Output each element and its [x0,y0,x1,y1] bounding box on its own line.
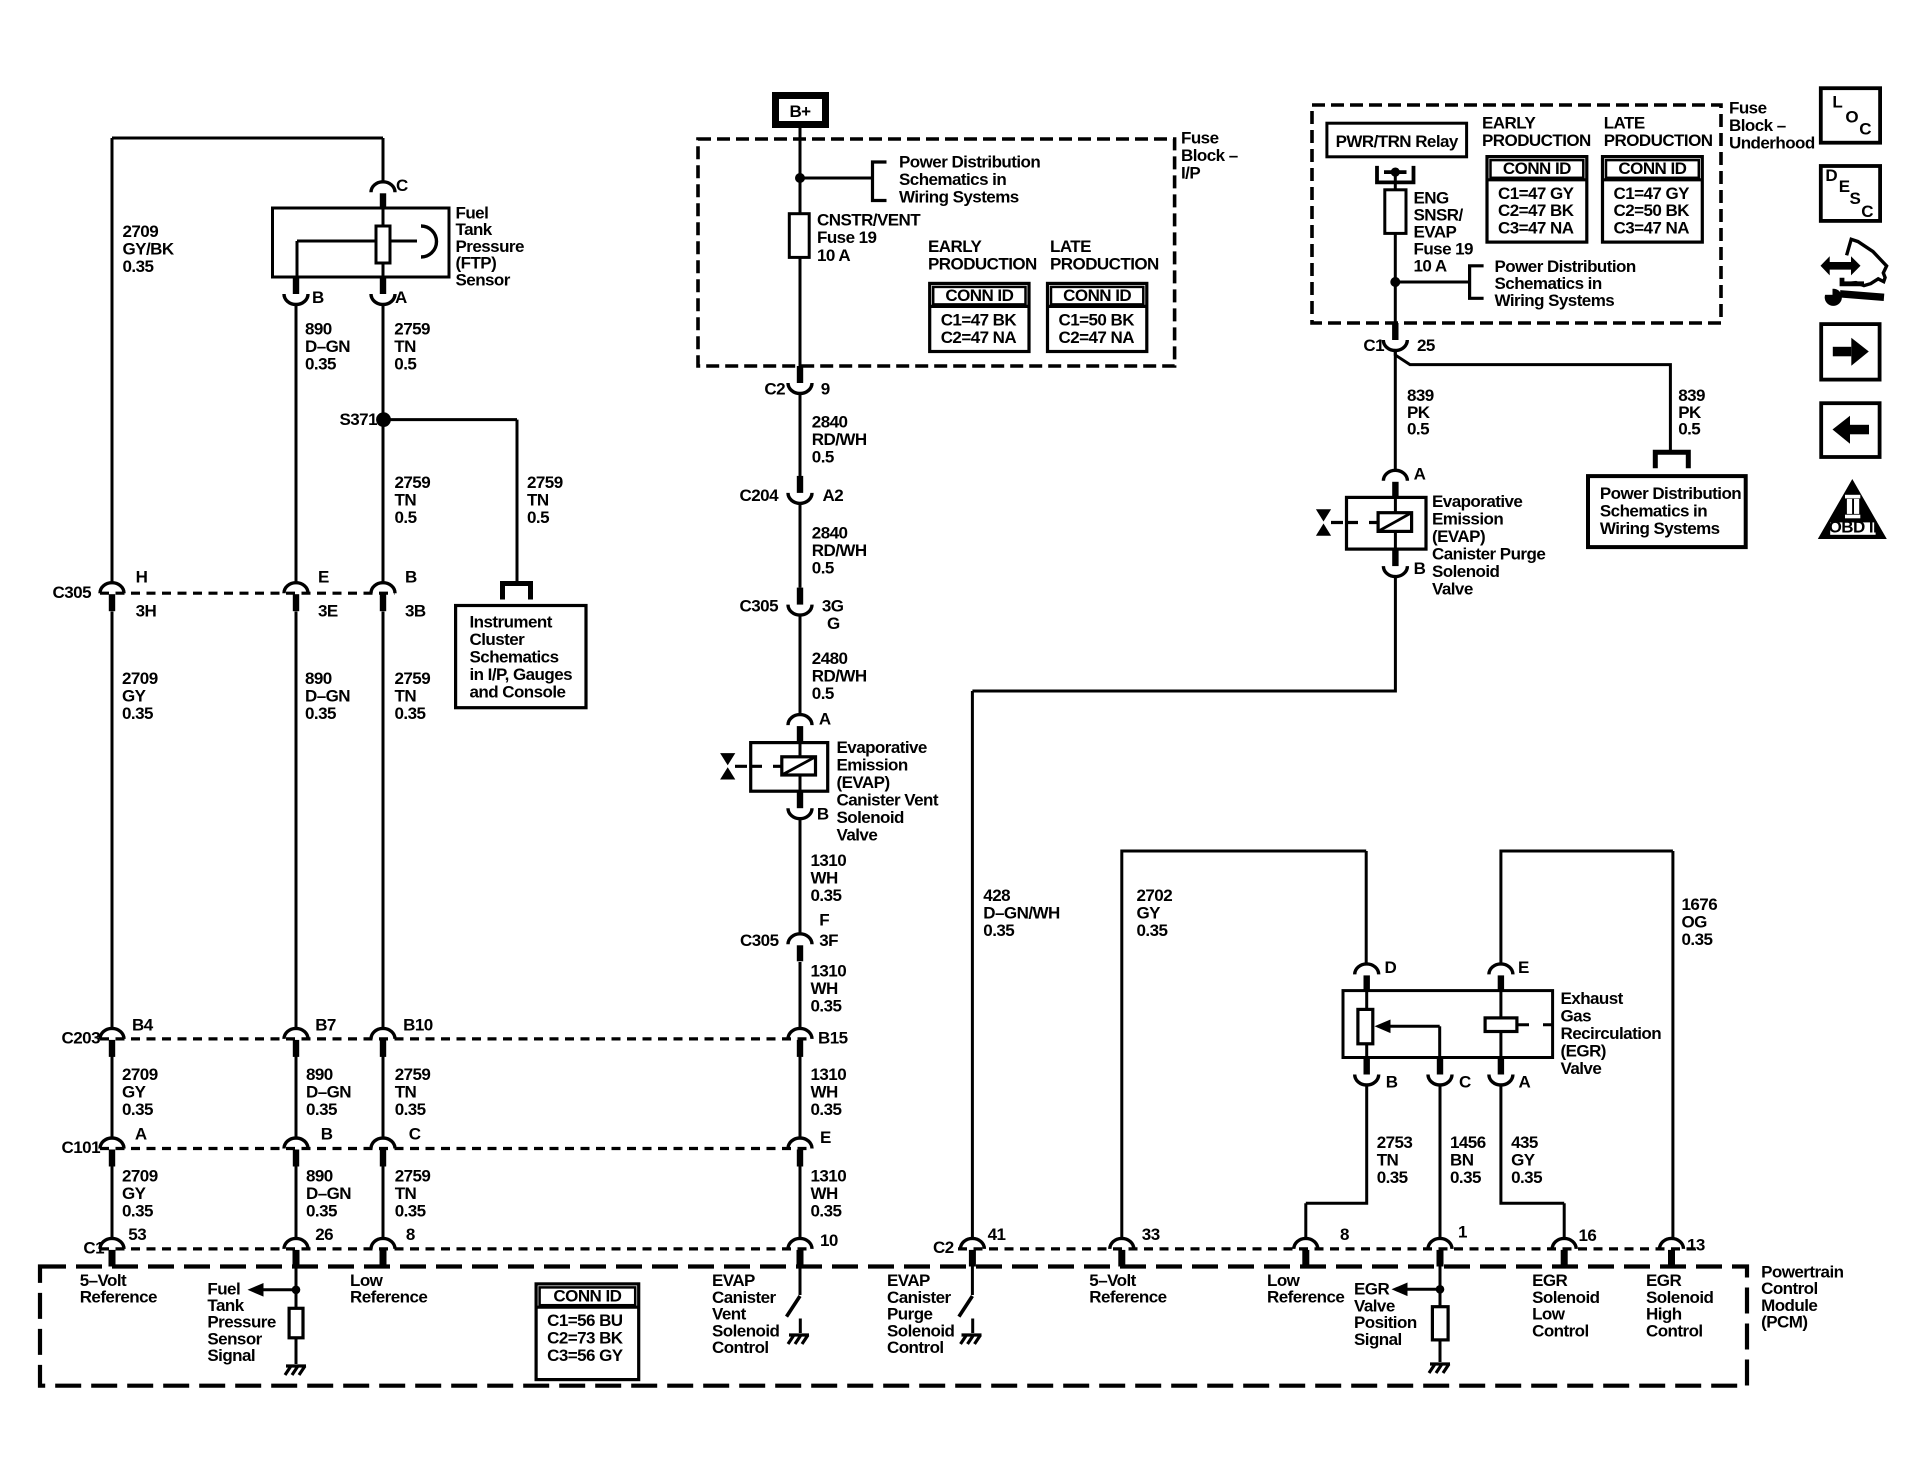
svg-text:1310: 1310 [811,961,847,980]
svg-text:CONN ID: CONN ID [1063,286,1131,305]
wire 2480 RD/WH [799,615,802,715]
conn id table early production I/P [930,283,1029,351]
label EVAP Canister Purge Solenoid Control [887,1271,955,1357]
connector C305 pin H [100,567,157,620]
svg-text:I/P: I/P [1181,163,1200,182]
svg-text:B: B [1414,559,1426,578]
wire 1310 WH (E to PCM pin 10) [799,1166,802,1239]
label Power Distribution Schematics underhood [1495,257,1636,310]
connector C2 dashed line [958,1247,1700,1250]
connector pin A of purge valve [1383,465,1425,498]
wire 2840 RD/WH (C2 to C204) [799,393,802,476]
svg-text:PWR/TRN Relay: PWR/TRN Relay [1336,132,1459,151]
svg-text:Control: Control [887,1338,944,1357]
svg-text:Fuse 19: Fuse 19 [817,228,877,247]
svg-text:RD/WH: RD/WH [812,541,867,560]
svg-text:RD/WH: RD/WH [812,667,867,686]
label Fuel Tank Pressure (FTP) Sensor [456,204,524,290]
conn id table late production I/P [1048,283,1147,351]
label C305 [53,583,92,602]
svg-text:C2=47 NA: C2=47 NA [941,328,1017,347]
svg-text:0.35: 0.35 [1682,930,1713,949]
svg-text:CONN ID: CONN ID [945,286,1013,305]
svg-text:EARLY: EARLY [928,237,983,256]
svg-text:890: 890 [305,669,332,688]
FTP sensor signal arrow and resistor [248,1267,304,1365]
svg-text:2840: 2840 [812,523,848,542]
connector C204 pin A2 [740,476,844,505]
EVAP canister purge solenoid valve box [1347,497,1427,549]
connector C101 pin C [371,1125,421,1167]
svg-text:Reference: Reference [1089,1288,1166,1307]
svg-text:Valve: Valve [837,825,878,844]
svg-text:2702: 2702 [1137,886,1173,905]
svg-text:GY: GY [1511,1151,1536,1170]
svg-text:2709: 2709 [123,222,159,241]
svg-text:16: 16 [1579,1226,1597,1245]
label EGR Valve Position Signal [1354,1280,1417,1349]
EGR position signal arrow and resistor [1392,1267,1449,1363]
svg-text:33: 33 [1142,1225,1160,1244]
wire 2753 TN (EGR B to PCM 8) [1306,1085,1367,1239]
svg-text:Control: Control [1646,1321,1703,1340]
svg-text:1676: 1676 [1682,895,1718,914]
wire junction to bracket underhood [1395,281,1469,284]
svg-text:428: 428 [983,886,1010,905]
connector C305 pin 3F [740,911,838,962]
fuse block I/P dashed box [698,139,1175,366]
svg-text:PRODUCTION: PRODUCTION [1482,131,1591,150]
svg-text:Cluster: Cluster [470,630,526,649]
svg-text:OG: OG [1682,913,1708,932]
svg-text:A: A [1414,465,1426,484]
ground EVAP vent driver [788,1335,809,1344]
svg-text:C1=47 GY: C1=47 GY [1498,184,1575,203]
svg-text:B: B [321,1125,333,1144]
svg-text:C: C [409,1125,421,1144]
svg-text:Schematics in: Schematics in [1600,502,1707,521]
EVAP vent control driver switch [787,1267,801,1334]
svg-text:Recirculation: Recirculation [1561,1024,1662,1043]
label Power Distribution Schematics in Wiring Systems box [1600,484,1741,538]
label 2759 TN 0.35 (lower) [395,1065,431,1119]
svg-text:D–GN: D–GN [305,686,350,705]
label 2702 GY 0.35 [1137,886,1173,940]
EGR position sensor potentiometer [1358,991,1373,1058]
svg-text:B: B [312,288,324,307]
label Fuel Tank Pressure Sensor Signal [207,1279,275,1365]
svg-text:Power Distribution: Power Distribution [1600,484,1741,503]
svg-text:2840: 2840 [812,413,848,432]
svg-text:2759: 2759 [394,320,430,339]
vent valve coil [782,743,816,792]
label EGR Solenoid High Control [1646,1271,1714,1340]
svg-text:9: 9 [821,380,830,399]
svg-text:Emission: Emission [837,755,908,774]
svg-text:LATE: LATE [1050,237,1091,256]
icon DESC box [1821,166,1880,221]
svg-text:C1=47 BK: C1=47 BK [941,310,1018,329]
svg-text:B+: B+ [789,102,811,121]
svg-text:Power Distribution: Power Distribution [899,152,1040,171]
svg-text:E: E [1518,958,1529,977]
label Power Distribution Schematics I/P [899,152,1040,206]
label 2759 TN 0.5 (left of A wire) [395,473,431,527]
svg-text:A: A [819,709,831,728]
wire 2759 TN (C203 to C101) [382,1057,385,1139]
connector C305 pin 3G [740,588,844,633]
svg-text:1: 1 [1458,1223,1467,1242]
junction dot underhood [1390,277,1400,287]
svg-text:0.35: 0.35 [1137,921,1168,940]
svg-text:2709: 2709 [122,1065,158,1084]
svg-text:3B: 3B [405,601,426,620]
wire 890 D-GN (C101 to C1) [295,1166,298,1239]
svg-text:0.5: 0.5 [1678,420,1700,439]
label ENG SNSR/EVAP Fuse 19 10 A [1414,189,1474,276]
label C2 [933,1238,954,1257]
svg-text:(EGR): (EGR) [1561,1042,1606,1061]
svg-text:B7: B7 [315,1015,336,1034]
svg-text:Emission: Emission [1432,509,1503,528]
splice S371 [339,410,390,429]
svg-text:B10: B10 [403,1015,433,1034]
svg-text:O: O [1845,108,1858,127]
svg-text:3F: 3F [819,931,838,950]
wire 2759 TN (C305 to C203) [382,612,385,1029]
ground FTP signal divider [285,1366,306,1375]
svg-text:0.35: 0.35 [811,996,842,1015]
label C203 [62,1029,101,1048]
wire fuse 19 to C2 [799,257,802,366]
svg-text:Underhood: Underhood [1729,134,1815,153]
label 1456 BN 0.35 [1450,1133,1486,1187]
label EGR Solenoid Low Control [1532,1271,1600,1340]
label Evaporative Emission EVAP Canister Purge Solenoid Valve [1432,492,1545,599]
svg-text:GY: GY [122,1184,147,1203]
svg-text:Schematics: Schematics [470,648,559,667]
EVAP purge control driver switch [959,1267,973,1334]
connector C2 pin 1 [1428,1223,1467,1267]
svg-text:2759: 2759 [395,473,431,492]
fuse block underhood dashed box [1312,105,1721,323]
label 2759 TN 0.5 (upper) [394,320,430,374]
wire 2709 GY (C305 to C203) [111,612,114,1029]
svg-text:0.35: 0.35 [395,1100,426,1119]
svg-text:2759: 2759 [395,1167,431,1186]
connector pin B of FTP sensor [284,277,324,307]
wire 1310 WH (B to C305-3F) [799,818,802,934]
svg-text:GY: GY [1137,904,1162,923]
svg-text:0.35: 0.35 [1377,1168,1408,1187]
svg-text:EARLY: EARLY [1482,114,1537,133]
label 2840 RD/WH 0.5 (upper) [812,413,867,467]
svg-text:0.5: 0.5 [527,508,549,527]
connector C305 pin E [284,567,338,620]
svg-text:TN: TN [395,686,417,705]
svg-text:0.5: 0.5 [1407,420,1429,439]
svg-text:(EVAP): (EVAP) [1432,527,1485,546]
label Low Reference (left) [350,1271,427,1307]
svg-text:GY: GY [122,686,147,705]
svg-text:C2=73 BK: C2=73 BK [547,1329,624,1348]
svg-text:0.5: 0.5 [395,508,417,527]
PWR/TRN relay box [1327,123,1467,157]
wire 428 D-GN/WH (purge B to PCM 41) [972,576,1395,1238]
label 890 D-GN 0.35 (bottom) [306,1167,351,1221]
svg-text:10 A: 10 A [1414,257,1447,276]
power distribution schematics box [1588,476,1746,547]
svg-text:CONN ID: CONN ID [1618,159,1686,178]
conn id table PCM [536,1284,639,1380]
label Fuse Block - Underhood [1729,99,1815,153]
label 1676 OG 0.35 [1682,895,1718,949]
svg-text:Canister Vent: Canister Vent [837,790,939,809]
svg-text:10: 10 [820,1231,838,1250]
svg-text:S371: S371 [339,410,377,429]
svg-text:Signal: Signal [207,1346,255,1365]
svg-text:1310: 1310 [811,1065,847,1084]
svg-text:Block –: Block – [1181,146,1238,165]
svg-text:2480: 2480 [812,649,848,668]
svg-text:0.35: 0.35 [305,354,336,373]
connector C305 dashed line [100,592,395,595]
ground EGR position divider [1429,1364,1450,1373]
svg-text:3G: 3G [822,597,844,616]
wire 435 GY (EGR A to PCM 16) [1501,1085,1564,1239]
svg-text:PRODUCTION: PRODUCTION [928,255,1037,274]
icon back arrow box [1821,403,1879,457]
label 2709 GY 0.35 (lower) [122,1065,158,1119]
wire 2759 TN (A to C305-B) [382,304,385,583]
connector pin A of EGR valve [1489,1058,1531,1092]
wire 839 PK branch elbow [1395,350,1670,452]
svg-text:C3=47 NA: C3=47 NA [1498,219,1574,238]
fuel tank pressure sensor FTP box [273,208,450,277]
power distribution bracket underhood [1470,266,1484,299]
B+ battery feed box [776,96,826,125]
label Fuse Block - I/P [1181,129,1238,183]
svg-text:Block –: Block – [1729,116,1786,135]
label LATE PRODUCTION underhood [1604,114,1713,151]
label 2759 TN 0.35 (bottom) [395,1167,431,1221]
connector C1 pin 26 [284,1225,333,1267]
icon LOC box [1821,88,1880,143]
svg-text:D–GN: D–GN [305,337,350,356]
svg-text:D–GN/WH: D–GN/WH [983,904,1060,923]
label Powertrain Control Module PCM [1761,1262,1844,1331]
svg-text:0.35: 0.35 [122,1100,153,1119]
svg-text:TN: TN [395,1082,417,1101]
svg-text:C3=47 NA: C3=47 NA [1614,219,1690,238]
label EARLY PRODUCTION (I/P) [928,237,1037,274]
EGR wiper arrow [1375,1020,1440,1058]
label 435 GY 0.35 [1511,1133,1542,1187]
svg-text:26: 26 [315,1225,333,1244]
svg-text:0.35: 0.35 [811,1100,842,1119]
wire B+ to fuse 19 [799,128,802,214]
svg-text:C: C [396,176,408,195]
purge valve pintle bowtie [1316,509,1378,535]
connector C1 pin 53 [100,1225,146,1267]
svg-text:10 A: 10 A [817,246,850,265]
connector C2 pin 41 [960,1225,1005,1267]
label EARLY PRODUCTION underhood [1482,114,1591,151]
svg-text:53: 53 [128,1225,146,1244]
svg-text:Reference: Reference [350,1288,427,1307]
connector pin D of EGR valve [1355,958,1397,991]
connector C101 pin A [100,1125,147,1167]
icon tool/diagnosis [1821,239,1887,306]
fuse CNSTR/VENT Fuse 19 [789,214,809,258]
label 5-Volt Reference (right) [1089,1271,1166,1307]
connector C1 pin 8 [371,1225,415,1267]
svg-text:C2=47 NA: C2=47 NA [1059,328,1135,347]
svg-text:WH: WH [811,1083,838,1102]
connector C1 pin 10 [788,1231,838,1267]
connector pin A of FTP sensor [371,277,407,307]
svg-text:2753: 2753 [1377,1133,1413,1152]
purge valve coil [1378,497,1412,549]
svg-text:0.35: 0.35 [305,704,336,723]
svg-text:B4: B4 [132,1015,154,1034]
icon forward arrow box [1821,324,1879,380]
connector pin B of purge valve [1383,549,1425,578]
instrument cluster schematics box [456,606,586,708]
svg-text:TN: TN [1377,1151,1399,1170]
svg-text:Wiring Systems: Wiring Systems [1495,291,1615,310]
svg-text:8: 8 [1340,1225,1349,1244]
svg-text:B: B [817,805,829,824]
connector pin E of EGR valve [1489,958,1529,991]
svg-text:0.35: 0.35 [306,1100,337,1119]
svg-text:B: B [1386,1073,1398,1092]
svg-text:Signal: Signal [1354,1330,1402,1349]
FTP internal C-curve [421,226,436,257]
connector C2 pin 8 [1294,1225,1349,1267]
svg-text:S: S [1850,189,1861,208]
label 890 D-GN 0.35 (upper) [305,320,350,374]
label 839 PK 0.5 (right) [1678,386,1705,439]
svg-text:C3=56 GY: C3=56 GY [547,1346,624,1365]
svg-text:890: 890 [306,1065,333,1084]
svg-text:C: C [1859,119,1871,138]
svg-text:C305: C305 [740,931,779,950]
svg-text:Sensor: Sensor [456,270,511,289]
svg-text:RD/WH: RD/WH [812,430,867,449]
label 2709 GY/BK 0.35 [123,222,175,276]
svg-text:2759: 2759 [527,473,563,492]
connector pin A of vent valve [788,709,831,742]
svg-text:TN: TN [395,490,417,509]
svg-text:Evaporative: Evaporative [837,738,927,757]
svg-text:0.5: 0.5 [812,448,834,467]
svg-text:A: A [395,288,407,307]
svg-text:PRODUCTION: PRODUCTION [1604,131,1713,150]
svg-text:0.5: 0.5 [812,684,834,703]
svg-text:Schematics in: Schematics in [899,170,1006,189]
svg-text:TN: TN [394,337,416,356]
svg-text:2709: 2709 [122,1167,158,1186]
svg-text:Evaporative: Evaporative [1432,492,1522,511]
vent valve pintle bowtie [720,753,782,779]
label 890 D-GN 0.35 (mid) [305,669,350,723]
label Exhaust Gas Recirculation EGR Valve [1561,989,1662,1078]
wire 2759 TN branch to instrument cluster [383,420,517,584]
svg-text:C1=50 BK: C1=50 BK [1059,310,1136,329]
svg-text:D–GN: D–GN [306,1184,351,1203]
svg-text:D: D [1825,166,1837,185]
ground EVAP purge driver [961,1335,982,1344]
svg-text:C2=50 BK: C2=50 BK [1614,201,1691,220]
svg-text:C1: C1 [1363,336,1384,355]
svg-text:0.35: 0.35 [122,1202,153,1221]
label 1310 WH 0.35 (3) [811,1065,847,1119]
svg-text:Valve: Valve [1561,1059,1602,1078]
svg-text:and Console: and Console [470,683,566,702]
svg-text:0.35: 0.35 [306,1202,337,1221]
connector C203 dashed line [100,1037,812,1040]
svg-text:Canister Purge: Canister Purge [1432,544,1545,563]
svg-text:(EVAP): (EVAP) [837,773,890,792]
svg-text:B: B [405,567,417,586]
label 5-Volt Reference (left) [80,1271,157,1307]
svg-text:2759: 2759 [395,1065,431,1084]
connector pin C of EGR valve [1428,1058,1471,1092]
svg-text:BN: BN [1450,1151,1474,1170]
svg-text:E: E [820,1128,831,1147]
svg-text:Fuse: Fuse [1181,129,1219,148]
connector pin B of vent valve [788,791,829,823]
connector C1 pin 25 underhood [1363,323,1435,355]
svg-text:C203: C203 [62,1029,101,1048]
label 1310 WH 0.35 (2) [811,961,847,1015]
svg-text:TN: TN [527,490,549,509]
relay contact cup symbol [1377,166,1414,183]
label EVAP Canister Vent Solenoid Control [712,1271,780,1357]
connector C101 dashed line [100,1147,812,1150]
svg-text:CNSTR/VENT: CNSTR/VENT [817,211,921,230]
svg-text:1310: 1310 [811,851,847,870]
svg-text:G: G [827,614,840,633]
svg-text:0.5: 0.5 [812,558,834,577]
EVAP canister vent solenoid valve box [751,743,828,792]
svg-text:C2=47 BK: C2=47 BK [1498,201,1575,220]
svg-text:0.5: 0.5 [394,354,416,373]
connector C203 pin B15 [788,1028,848,1057]
FTP internal wiper wire [297,241,417,277]
label CNSTR/VENT Fuse 19 10 A [817,211,921,265]
wire 1456 BN (EGR C to PCM 1) [1439,1085,1442,1239]
wire 2840 RD/WH (C204 to C305) [799,503,802,587]
svg-text:WH: WH [811,979,838,998]
svg-text:0.35: 0.35 [395,1202,426,1221]
connector C203 pin B4 [100,1015,154,1057]
svg-text:D–GN: D–GN [306,1082,351,1101]
connector pin B of EGR valve [1355,1058,1398,1092]
svg-text:B15: B15 [818,1029,848,1048]
icon OBD II triangle [1818,479,1887,539]
junction dot fuse block I/P [795,173,805,183]
svg-text:C305: C305 [740,597,779,616]
label Evaporative Emission EVAP Canister Vent Solenoid Valve [837,738,939,845]
svg-text:GY: GY [122,1082,147,1101]
svg-text:Reference: Reference [80,1288,157,1307]
svg-text:Wiring Systems: Wiring Systems [1600,519,1720,538]
svg-text:Valve: Valve [1432,579,1473,598]
label C101 [62,1138,101,1157]
svg-text:L: L [1832,93,1842,112]
